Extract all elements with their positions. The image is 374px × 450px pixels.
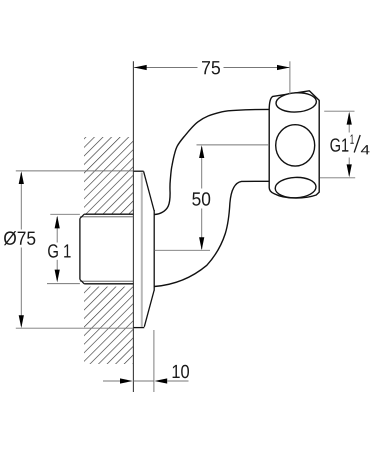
flange bottom slant (144, 290, 154, 327)
dim D75 top extension line (16, 170, 134, 172)
dim 75 dimension line (134, 67, 197, 69)
wall face line (132, 61, 134, 392)
dim G1-1/4 bottom extension line (320, 177, 355, 179)
dim G1 dimension line (56, 217, 58, 243)
dim 10 right arrow (154, 378, 167, 383)
dim G1-1/4 text superscript 1 (350, 135, 353, 144)
nut top ellipse (276, 92, 317, 113)
flange bottom edge (133, 327, 144, 329)
flange right edge (153, 210, 155, 291)
dim 50 text (192, 192, 210, 205)
dim 75 right extension line (289, 61, 291, 94)
dim G1-1/4 top extension line (324, 110, 354, 112)
wall hatch lower block (84, 287, 133, 364)
dim 75 right arrow (277, 65, 290, 70)
dim 10 second extension line (153, 330, 155, 392)
dim 50 up arrow (199, 145, 204, 158)
dim G1 bottom extension line (47, 283, 80, 285)
dim 10 dimension line between (133, 380, 154, 382)
nut body outline (269, 91, 319, 198)
dim 50 bottom extension line (154, 249, 210, 251)
thread G1 nipple top root line (80, 216, 133, 218)
dim D75 down arrow (19, 315, 24, 328)
dim 10 text (173, 365, 189, 378)
dim 75 text (202, 61, 220, 74)
dim G1 down arrow (55, 270, 60, 283)
nut middle circle (276, 125, 315, 166)
dim 75 left arrow (134, 65, 147, 70)
thread top chamfer (80, 214, 84, 218)
dim G1-1/4 up arrow (347, 112, 352, 125)
dim 10 right tail line (167, 380, 188, 382)
dim G1-1/4 fraction slash (354, 135, 360, 153)
thread end face (79, 219, 81, 280)
flange top slant (144, 171, 155, 211)
dim G1-1/4 dimension line (348, 114, 350, 133)
wall hatch upper block (84, 137, 133, 214)
dim 50 dimension line (201, 147, 203, 189)
pipe outer upper outline (flange to nut) (155, 109, 270, 214)
dim G1-1/4 text G1 (330, 138, 348, 151)
dim 50 down arrow (199, 237, 204, 250)
dim D75 up arrow (19, 171, 24, 184)
thread bottom chamfer (80, 280, 84, 284)
flange top edge (133, 170, 143, 172)
thread G1 nipple bottom crest line (84, 283, 133, 285)
nut bottom ellipse (275, 177, 317, 199)
thread G1 nipple top crest line (84, 213, 133, 215)
dim 10 left arrow (120, 378, 133, 383)
dim 50 top extension line (197, 144, 270, 146)
dim G1 up arrow (55, 216, 60, 229)
thread G1 nipple bottom root line (80, 280, 133, 282)
dim D75 dimension line (20, 173, 22, 230)
dim G1-1/4 text denominator 4 (361, 145, 370, 154)
dim 10 left tail line (103, 380, 120, 382)
dim G1 text (48, 244, 71, 257)
pipe inner lower outline (nut to flange) (154, 181, 269, 286)
dim G1-1/4 down arrow (347, 164, 352, 177)
dim D75 text (4, 231, 35, 245)
dim G1 top extension line (50, 213, 80, 215)
dim D75 bottom extension line (16, 327, 134, 329)
flange gray highlight line (141, 173, 143, 328)
